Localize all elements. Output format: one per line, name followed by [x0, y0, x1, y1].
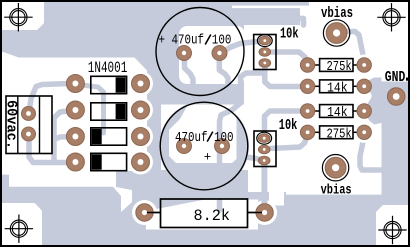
copper pour column below diodes	[116, 171, 161, 245]
crosshair bottom-right	[378, 216, 406, 244]
capacitor C1 outline	[156, 8, 244, 96]
resistor R3 14k outline	[320, 105, 353, 118]
wire plane stub near top right	[291, 18, 304, 25]
wire trimpot P1 branch down to bottom cap and 8.2k area	[220, 73, 263, 210]
resistor lead lines	[149, 65, 360, 213]
capacitor C2 outline	[160, 102, 248, 190]
wire trimpot P2 to 8.2k right pad	[261, 162, 267, 209]
wire 275k R4 to trimpot P2 middle	[266, 134, 308, 149]
wire vbias top pad to 275k R1 right pad	[337, 32, 364, 61]
wire trimpot P1 bottom to 14k R2	[265, 64, 304, 87]
pad P2 2	[258, 145, 270, 154]
ground plane left lower ledge	[2, 30, 44, 58]
pad vbias bottom	[325, 157, 346, 178]
svg-text:10k: 10k	[279, 117, 298, 134]
clearance around 8.2k resistor	[132, 200, 157, 225]
pad R3 left	[300, 104, 314, 118]
wire 60vac bottom pad to diode D4	[29, 134, 70, 163]
copper blob joining R2/R3 right pads to plane	[366, 78, 382, 125]
pad P1 2	[259, 48, 271, 57]
pad C2 minus	[215, 139, 230, 154]
copper pour center column	[147, 56, 244, 105]
clearance slit in pour	[232, 6, 309, 9]
pad R4 right	[357, 125, 371, 139]
svg-text:470uf: 470uf	[175, 131, 208, 146]
traces	[29, 18, 381, 210]
svg-text:GND: GND	[385, 69, 406, 86]
diode D4 cathode band	[92, 154, 102, 169]
connector J1 60vac outline	[6, 96, 52, 154]
pad R2 left	[300, 79, 314, 93]
resistor R2 14k outline	[320, 80, 353, 93]
wire top cap left pad stub down to plane	[185, 55, 194, 87]
wire 60vac top pad to diode D1	[29, 84, 71, 113]
pads	[22, 23, 406, 222]
right copper region	[377, 82, 408, 246]
diode D2 outline	[91, 103, 127, 120]
svg-text:vbias: vbias	[321, 184, 352, 199]
svg-text:1N4001: 1N4001	[88, 59, 128, 77]
resistor R5 8.2k outline	[161, 199, 248, 228]
vbias top ring	[323, 20, 349, 46]
resistor R4 275k outline	[320, 126, 353, 139]
clearance top-left mounting notch	[2, 2, 44, 30]
clearance inside top capacitor	[179, 26, 245, 84]
pad J1 bottom	[22, 127, 36, 141]
pad D4 anode	[66, 153, 84, 171]
svg-text:8.2k: 8.2k	[194, 207, 231, 225]
pad D1 cathode	[132, 75, 150, 93]
clearance around resistor right pads	[354, 55, 375, 143]
pad D2 anode	[66, 101, 84, 119]
copper pour around bottom capacitor	[159, 101, 249, 191]
pad C1 plus	[177, 46, 192, 61]
diode D1 cathode band	[116, 77, 126, 92]
svg-text:vbias: vbias	[321, 5, 353, 22]
svg-text:275k: 275k	[327, 127, 352, 143]
diode D1 outline	[91, 76, 127, 93]
wire branch to diode D3	[54, 137, 71, 140]
pad D3 anode	[66, 128, 84, 146]
diode D2 cathode band	[116, 104, 126, 119]
ground plane top copper pour	[2, 2, 309, 58]
diode D3 outline	[91, 128, 127, 145]
wire behind diode boxes	[78, 85, 104, 134]
svg-text:+: +	[204, 150, 212, 165]
svg-text:275k: 275k	[327, 59, 352, 75]
bottom copper band left	[2, 175, 121, 245]
pad R1 left	[300, 58, 314, 72]
wire trimpot P1 middle to 275k R1	[266, 52, 308, 63]
pad D4 cathode	[132, 153, 150, 171]
wire top cap right pad stub down to plane	[219, 54, 228, 87]
pad P2 3	[258, 156, 270, 165]
crosshair top-right	[377, 3, 405, 31]
svg-text:14k: 14k	[327, 81, 348, 97]
pad R1 right	[357, 58, 371, 72]
diode D3 cathode band	[92, 129, 102, 144]
pad J1 top	[22, 107, 36, 121]
pad D2 cathode	[132, 101, 150, 119]
vbias bottom ring	[322, 155, 348, 181]
wire top cap to trimpot P1	[220, 41, 262, 53]
trimpot P1 outline	[254, 35, 276, 70]
svg-text:10k: 10k	[280, 26, 299, 43]
svg-text:100: 100	[214, 131, 234, 146]
pad D3 cathode	[132, 128, 150, 146]
crosshair bottom-left	[5, 215, 33, 243]
wire right plane to 275k R4 right pad	[360, 140, 381, 170]
silkscreen	[6, 8, 359, 228]
resistor R1 275k outline	[320, 59, 353, 72]
svg-text:+ 470uf: + 470uf	[159, 34, 205, 49]
resistor R5 lead lines over pads	[147, 212, 161, 214]
svg-text:60vac.: 60vac.	[3, 100, 20, 149]
pad P1 3	[259, 59, 271, 68]
pad GND	[387, 88, 405, 106]
pad R5 right	[256, 204, 273, 221]
diode D4 outline	[91, 153, 127, 170]
pad P1 1	[259, 36, 271, 45]
pad R3 right	[357, 104, 371, 118]
pad C2 plus	[177, 139, 192, 154]
wire branch to diode D2	[54, 111, 71, 163]
svg-text:14k: 14k	[327, 105, 348, 121]
wire trimpot P2 bottom stub to plane	[244, 158, 266, 161]
copper pour chamfer left of column	[134, 57, 148, 72]
pad holes	[26, 29, 400, 215]
clearance around diode cathode pads	[128, 71, 153, 175]
svg-text:100: 100	[212, 34, 232, 49]
clearance bottom-right mounting notch	[376, 205, 408, 245]
pad R4 left	[300, 125, 314, 139]
trimpot P2 outline	[254, 131, 276, 167]
pad C1 minus	[212, 46, 227, 61]
pad R2 right	[357, 79, 371, 93]
pad P2 1	[258, 134, 270, 143]
clearance inside bottom capacitor	[169, 105, 237, 164]
bottom copper band right	[161, 192, 378, 245]
label GND period	[406, 78, 409, 81]
pad R5 left	[136, 204, 153, 221]
crosshair top-left	[4, 3, 32, 31]
clearance bottom-left mounting notch	[2, 203, 42, 245]
wire 14k R3 to trimpot P2 top	[265, 111, 308, 136]
pad vbias top	[326, 23, 347, 44]
pad D1 anode	[66, 75, 84, 93]
